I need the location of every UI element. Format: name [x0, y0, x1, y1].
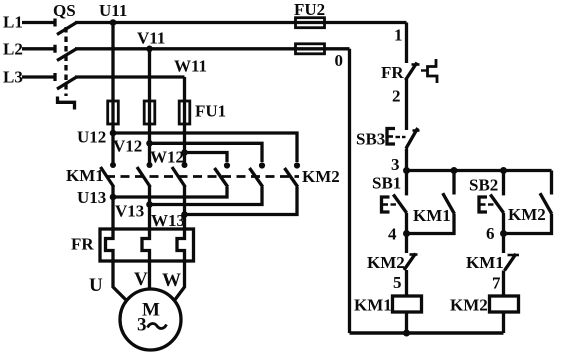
svg-text:U13: U13: [77, 188, 106, 207]
contactor KM2 main contact 1: [215, 162, 231, 187]
label 5: [393, 273, 402, 292]
svg-text:V13: V13: [115, 202, 144, 221]
wire phase V drop: [148, 49, 151, 165]
node 3: [403, 167, 410, 174]
svg-text:V12: V12: [113, 137, 142, 156]
label V13: [115, 202, 144, 221]
node U11: [110, 19, 117, 26]
fuse FU1-1: [108, 101, 119, 124]
label SB3: [356, 130, 385, 149]
svg-text:5: 5: [393, 273, 402, 292]
node 6: [500, 230, 507, 237]
svg-text:W11: W11: [174, 57, 207, 76]
svg-text:FU1: FU1: [195, 102, 226, 121]
contactor KM2 main contact 2: [250, 162, 266, 187]
label V12: [113, 137, 142, 156]
node U12: [110, 130, 117, 137]
wire KM2-1 to U13: [113, 187, 227, 197]
svg-text:3: 3: [137, 315, 147, 336]
node V11: [146, 46, 153, 53]
motor M: [120, 289, 181, 350]
svg-text:2: 2: [392, 87, 401, 106]
svg-text:W: W: [162, 270, 181, 291]
svg-text:FU2: FU2: [294, 0, 325, 19]
svg-text:3: 3: [391, 155, 400, 174]
svg-text:W13: W13: [151, 211, 185, 230]
label W11: [174, 57, 207, 76]
svg-text:FR: FR: [71, 235, 94, 254]
wire motor lead U: [113, 261, 127, 301]
svg-text:SB2: SB2: [469, 176, 498, 195]
label KM2 coil: [450, 296, 488, 315]
svg-text:U11: U11: [99, 1, 127, 20]
label W: [162, 270, 181, 291]
switch QS: [57, 23, 77, 110]
svg-text:KM2: KM2: [450, 296, 488, 315]
svg-text:0: 0: [335, 51, 344, 70]
label M: [142, 300, 160, 321]
label L2: [3, 40, 23, 59]
label 2: [392, 87, 401, 106]
label V11: [137, 29, 165, 48]
label L3: [3, 68, 23, 87]
label FU2: [294, 0, 325, 19]
wire motor lead W: [174, 261, 185, 301]
contact KM1 aux NO: [407, 171, 455, 234]
svg-text:KM1: KM1: [66, 166, 104, 185]
wire V12 crossover to KM2-2: [150, 143, 263, 162]
wire KM1 coil to rail: [405, 312, 408, 333]
svg-text:KM2: KM2: [302, 167, 340, 186]
wire KM2-3 to W13: [185, 187, 298, 215]
contact KM2 aux NO: [504, 171, 552, 234]
node W12: [181, 149, 188, 156]
label SB1: [372, 174, 401, 193]
wire control riser top: [405, 23, 408, 64]
fuse FU1-3: [179, 101, 190, 124]
label KM1 main: [66, 166, 104, 185]
wire W lower: [183, 186, 186, 229]
label 3: [391, 155, 400, 174]
label U13: [77, 188, 106, 207]
node rail KM1 aux: [451, 167, 458, 174]
node V13: [146, 201, 153, 208]
contact KM2 NC interlock: [404, 234, 418, 297]
contactor KM1 linkage: [106, 175, 299, 178]
label U11: [99, 1, 127, 20]
thermal overload FR heater 3: [177, 229, 185, 261]
wire phase U drop: [111, 23, 114, 166]
node 4: [403, 230, 410, 237]
wire riser 2: [405, 79, 408, 130]
label 7: [492, 274, 501, 293]
label L1: [3, 13, 23, 32]
label 6: [486, 224, 495, 243]
pushbutton SB3 NC: [387, 128, 420, 148]
svg-text:KM1: KM1: [354, 296, 392, 315]
thermal contact FR NC: [406, 59, 438, 83]
label 0: [335, 51, 344, 70]
label 4: [388, 225, 397, 244]
label KM2 aux: [508, 205, 546, 224]
fuse FU2-2: [296, 44, 325, 54]
wire W12 crossover to KM2-1: [185, 153, 228, 163]
label W12: [150, 148, 184, 167]
fuse FU2-1: [296, 18, 325, 28]
contactor KM1 main contact 3: [172, 162, 188, 187]
label FR main: [71, 235, 94, 254]
node rail SB2: [500, 167, 507, 174]
coil KM1: [393, 296, 422, 312]
svg-text:1: 1: [394, 26, 403, 45]
svg-text:FR: FR: [381, 63, 404, 82]
wire L3 bus: [75, 75, 185, 78]
label FR control: [381, 63, 404, 82]
label KM2 interlock: [367, 253, 405, 272]
label KM1 coil: [354, 296, 392, 315]
svg-text:6: 6: [486, 224, 495, 243]
label V: [134, 269, 148, 290]
label 1: [394, 26, 403, 45]
wire L1 lead: [22, 19, 55, 27]
thermal overload FR box: [100, 229, 194, 261]
svg-text:7: 7: [492, 274, 501, 293]
label KM1 aux: [413, 206, 451, 225]
label QS: [53, 1, 76, 20]
label FU1: [195, 102, 226, 121]
svg-text:U: U: [89, 275, 103, 296]
coil KM2: [490, 296, 519, 312]
contactor KM2 main contact 3: [285, 162, 301, 187]
contactor KM1 main contact 2: [137, 162, 153, 187]
wire control rail: [407, 169, 552, 172]
svg-text:KM1: KM1: [413, 206, 451, 225]
svg-text:KM2: KM2: [367, 253, 405, 272]
svg-text:4: 4: [388, 225, 397, 244]
wire phase W drop: [183, 77, 186, 165]
wire riser 3: [405, 149, 408, 171]
node U13: [110, 194, 117, 201]
svg-text:L1: L1: [3, 13, 23, 32]
svg-text:L3: L3: [3, 68, 23, 87]
svg-text:L2: L2: [3, 40, 23, 59]
label KM2 main: [302, 167, 340, 186]
node V12: [146, 140, 153, 147]
svg-text:SB3: SB3: [356, 130, 385, 149]
contactor KM1 main contact 1: [101, 162, 117, 187]
label 3~: [137, 315, 167, 336]
svg-text:W12: W12: [150, 148, 184, 167]
wire KM2 coil drop: [502, 312, 505, 333]
label U: [89, 275, 103, 296]
contact KM1 NC interlock: [504, 234, 520, 297]
wire L3 lead: [22, 73, 55, 81]
pushbutton SB2 NO: [479, 171, 504, 234]
node bottom junction: [403, 330, 410, 337]
thermal overload FR heater 2: [142, 229, 150, 261]
wire U12 crossover to KM2-3: [113, 133, 297, 162]
svg-text:SB1: SB1: [372, 174, 401, 193]
wire L1 bus: [75, 21, 407, 24]
wire U lower: [111, 186, 114, 229]
fuse FU1-2: [144, 101, 155, 124]
svg-text:V11: V11: [137, 29, 165, 48]
label W13: [151, 211, 185, 230]
node W13: [181, 211, 188, 218]
pushbutton SB1 NO: [382, 171, 407, 234]
label KM1 interlock: [466, 253, 504, 272]
wire KM2-2 to V13: [150, 187, 263, 205]
wire L2 bus: [75, 47, 350, 50]
svg-text:QS: QS: [53, 1, 76, 20]
wire V lower: [148, 186, 151, 229]
wire motor lead V: [148, 261, 151, 290]
wire L2 lead: [22, 45, 55, 53]
svg-text:U12: U12: [77, 128, 106, 147]
svg-text:KM2: KM2: [508, 205, 546, 224]
wire bottom rail: [350, 331, 504, 335]
label SB2: [469, 176, 498, 195]
wire 0 drop: [348, 49, 351, 333]
svg-text:KM1: KM1: [466, 253, 504, 272]
svg-text:V: V: [134, 269, 148, 290]
label U12: [77, 128, 106, 147]
thermal overload FR heater 1: [106, 229, 114, 261]
